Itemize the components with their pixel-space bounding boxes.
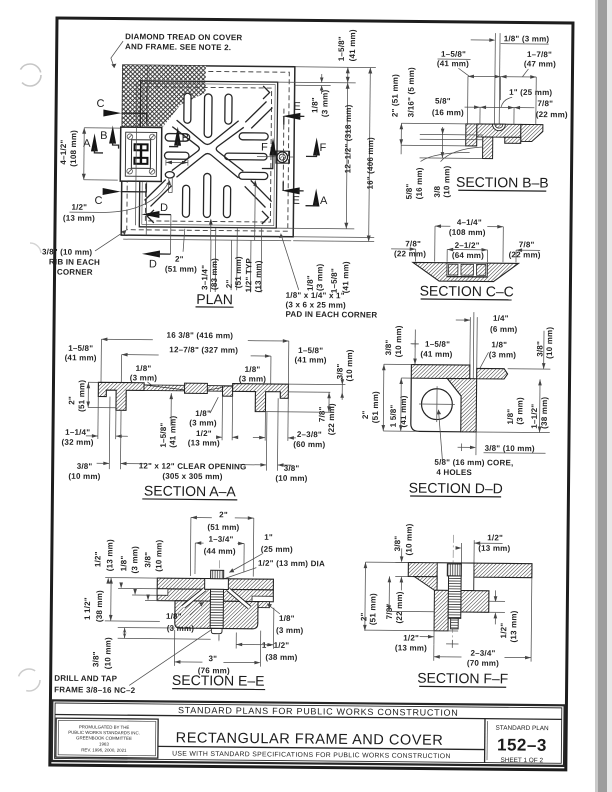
svg-text:(10 mm): (10 mm) <box>103 637 112 669</box>
svg-text:1–5/8": 1–5/8" <box>337 36 346 61</box>
svg-text:(51 mm): (51 mm) <box>77 380 86 412</box>
svg-text:REV. 1996, 2000, 2021: REV. 1996, 2000, 2021 <box>81 747 127 752</box>
taper lines on plate <box>144 385 233 390</box>
svg-text:3": 3" <box>208 654 217 663</box>
frame inner dashed rect <box>127 71 290 232</box>
svg-text:1": 1" <box>264 533 273 542</box>
svg-text:1/8" (3 mm): 1/8" (3 mm) <box>504 34 550 43</box>
svg-text:A: A <box>320 195 328 207</box>
svg-text:3–1/4": 3–1/4" <box>200 265 209 290</box>
bottom block <box>175 601 258 629</box>
svg-text:(13 mm): (13 mm) <box>395 643 427 652</box>
svg-text:(38 mm): (38 mm) <box>265 653 297 662</box>
svg-text:1/8": 1/8" <box>166 612 182 621</box>
svg-text:(22 mm): (22 mm) <box>509 250 541 259</box>
svg-text:1/8": 1/8" <box>195 409 211 418</box>
frame corner tread hatch <box>122 65 206 129</box>
svg-text:7/8": 7/8" <box>318 406 327 422</box>
svg-text:(3 mm): (3 mm) <box>167 624 195 633</box>
svg-text:5/8" (16 mm) CORE,: 5/8" (16 mm) CORE, <box>434 458 513 468</box>
svg-text:(6 mm): (6 mm) <box>490 325 518 334</box>
svg-text:F: F <box>320 142 327 154</box>
dim 1/8 gap arrows top right <box>321 74 323 82</box>
small piece <box>222 386 232 396</box>
handle stem <box>169 178 173 193</box>
latch centerline verticals <box>136 81 137 225</box>
svg-text:2": 2" <box>359 612 368 621</box>
svg-text:PLAN: PLAN <box>196 291 233 307</box>
svg-text:PAD IN EACH CORNER: PAD IN EACH CORNER <box>285 310 377 320</box>
slot h bottom-right <box>239 172 268 179</box>
body top bar left <box>411 365 470 379</box>
svg-text:1–1/2": 1–1/2" <box>530 404 539 429</box>
bottom dim extension verticals <box>214 228 217 292</box>
slot v5 <box>203 173 210 217</box>
svg-text:12–1/2" (318 mm): 12–1/2" (318 mm) <box>343 104 353 173</box>
svg-text:3/8" (10 mm): 3/8" (10 mm) <box>485 444 535 453</box>
svg-text:RIB IN EACH: RIB IN EACH <box>49 257 100 266</box>
info box <box>56 718 158 758</box>
svg-text:(51 mm): (51 mm) <box>165 265 197 274</box>
svg-text:(41 mm): (41 mm) <box>420 350 452 359</box>
svg-text:(3 mm): (3 mm) <box>189 418 217 427</box>
right block <box>461 591 489 613</box>
cover outer rect <box>139 81 277 228</box>
svg-text:7/8": 7/8" <box>405 239 421 248</box>
svg-text:(3 mm): (3 mm) <box>239 374 267 383</box>
svg-text:(108 mm): (108 mm) <box>69 130 78 167</box>
svg-text:1–5/8": 1–5/8" <box>330 268 339 293</box>
svg-text:3/8": 3/8" <box>535 341 544 357</box>
D cut line <box>170 215 172 254</box>
svg-text:5/8": 5/8" <box>405 184 414 200</box>
banner separator <box>55 715 562 720</box>
svg-text:(13 mm): (13 mm) <box>188 438 220 447</box>
svg-text:(70 mm): (70 mm) <box>467 659 499 668</box>
right standard-plan box <box>484 719 486 763</box>
svg-text:(13 mm): (13 mm) <box>254 260 263 292</box>
bolt head knurl <box>211 570 224 578</box>
svg-text:SECTION E–E: SECTION E–E <box>172 672 265 689</box>
right notch <box>252 596 273 602</box>
svg-text:3/8": 3/8" <box>384 340 393 356</box>
svg-text:1/8": 1/8" <box>279 614 295 623</box>
svg-text:(41 mm): (41 mm) <box>348 29 357 61</box>
left notch <box>157 589 168 596</box>
svg-text:3/8": 3/8" <box>393 536 402 552</box>
svg-text:1–5/8": 1–5/8" <box>68 344 93 353</box>
svg-text:12–7/8" (327 mm): 12–7/8" (327 mm) <box>169 345 238 355</box>
svg-text:1–5/8": 1–5/8" <box>425 340 450 349</box>
mid dim line <box>465 106 535 109</box>
bolt tip <box>211 628 222 633</box>
svg-text:SECTION C–C: SECTION C–C <box>420 282 514 299</box>
left ext lines <box>105 577 157 580</box>
svg-text:3/8": 3/8" <box>143 552 152 568</box>
svg-text:(10 mm): (10 mm) <box>394 325 403 357</box>
leader hooks bottom dims <box>441 147 483 162</box>
svg-text:D: D <box>149 258 157 270</box>
svg-text:1/8": 1/8" <box>136 364 152 373</box>
dim 16 vertical <box>369 68 371 242</box>
svg-text:(3 mm): (3 mm) <box>130 546 139 574</box>
svg-text:(10 mm): (10 mm) <box>275 474 307 483</box>
svg-text:(3 x 6 x 25 mm): (3 x 6 x 25 mm) <box>286 300 347 310</box>
channel blocks <box>449 264 458 275</box>
dim 1-5/8 vertical top right <box>347 67 349 82</box>
svg-text:16 3/8" (416 mm): 16 3/8" (416 mm) <box>167 331 234 341</box>
latch bolt circles <box>127 134 155 174</box>
svg-text:(41 mm): (41 mm) <box>399 395 408 427</box>
mid bar <box>477 124 521 137</box>
scan shadow right edge <box>597 0 608 792</box>
svg-text:C: C <box>94 195 102 207</box>
svg-text:(51 mm): (51 mm) <box>207 523 239 532</box>
svg-text:AND FRAME. SEE NOTE 2.: AND FRAME. SEE NOTE 2. <box>125 42 231 52</box>
svg-text:E: E <box>292 195 299 207</box>
svg-text:3/8": 3/8" <box>284 464 300 473</box>
right side extension lines <box>295 66 376 69</box>
core circle <box>421 389 452 420</box>
svg-text:(16 mm): (16 mm) <box>432 108 464 117</box>
centerline <box>218 560 221 641</box>
svg-text:3/8": 3/8" <box>91 651 100 667</box>
svg-text:7/8": 7/8" <box>537 99 553 108</box>
dim 12-1/2 vertical <box>346 83 347 229</box>
svg-text:3/16" (5 mm): 3/16" (5 mm) <box>406 67 415 117</box>
svg-text:(51 mm): (51 mm) <box>234 256 243 288</box>
svg-text:1–7/8": 1–7/8" <box>527 50 552 59</box>
svg-text:1/8": 1/8" <box>506 409 515 425</box>
svg-text:1/2": 1/2" <box>71 203 87 212</box>
svg-text:B: B <box>182 132 189 144</box>
right tab <box>258 602 270 608</box>
cover inner dashed rect <box>145 87 271 222</box>
bolt head knurl <box>447 564 461 576</box>
svg-text:2–3/4": 2–3/4" <box>470 649 495 658</box>
svg-text:(47 mm): (47 mm) <box>524 59 556 68</box>
lip under mid <box>505 137 521 143</box>
bolt head <box>205 579 229 590</box>
slot v6 <box>223 186 230 218</box>
bolt circle F <box>277 152 288 163</box>
svg-text:1 5/8": 1 5/8" <box>389 405 398 428</box>
svg-text:12" x 12" CLEAR OPENING: 12" x 12" CLEAR OPENING <box>139 461 247 471</box>
small arrows left <box>106 578 123 589</box>
svg-text:(41 mm): (41 mm) <box>295 355 327 364</box>
svg-text:3/8" (10 mm): 3/8" (10 mm) <box>42 247 92 256</box>
slot h top-left <box>165 134 190 142</box>
svg-text:5/8": 5/8" <box>435 97 451 106</box>
top plate <box>408 562 532 577</box>
slot v1 <box>184 93 191 123</box>
X band top V <box>176 120 238 145</box>
svg-text:(13 mm): (13 mm) <box>478 544 510 553</box>
svg-text:(10 mm): (10 mm) <box>68 472 100 481</box>
svg-text:2": 2" <box>67 396 76 405</box>
handle oval <box>165 172 174 178</box>
bottom dim lines <box>108 397 111 469</box>
leader arrows to bottom slots <box>210 220 212 240</box>
svg-text:3/8": 3/8" <box>335 364 344 380</box>
svg-text:B: B <box>100 130 107 142</box>
right flange <box>521 124 543 141</box>
svg-text:(13 mm): (13 mm) <box>63 214 95 223</box>
svg-text:(83 mm): (83 mm) <box>210 258 219 290</box>
left frame block <box>98 382 144 410</box>
svg-text:F: F <box>261 141 268 153</box>
bolt cavity <box>492 124 505 131</box>
svg-text:(38 mm): (38 mm) <box>95 590 104 622</box>
slot h top-right <box>239 133 268 140</box>
bolt lower <box>451 618 459 629</box>
svg-text:(108 mm): (108 mm) <box>449 228 486 237</box>
bolt head cavity white <box>437 563 474 591</box>
svg-text:(41 mm): (41 mm) <box>437 59 469 68</box>
svg-text:SECTION D–D: SECTION D–D <box>409 479 503 496</box>
punch hole top <box>19 64 41 86</box>
core leader <box>438 410 443 461</box>
svg-text:DIAMOND TREAD ON COVER: DIAMOND TREAD ON COVER <box>125 32 242 42</box>
rod through section <box>493 33 496 126</box>
svg-text:(32 mm): (32 mm) <box>62 438 94 447</box>
latch hump <box>185 383 208 393</box>
svg-text:2–3/8": 2–3/8" <box>297 430 322 439</box>
X band bottom V <box>176 153 238 178</box>
svg-text:(10 mm): (10 mm) <box>442 165 451 197</box>
svg-text:(3 mm): (3 mm) <box>320 89 329 117</box>
body vertical bar <box>447 378 477 431</box>
svg-text:2": 2" <box>175 255 184 264</box>
E cut dashed line <box>282 109 285 191</box>
svg-text:2": 2" <box>219 510 228 519</box>
left strip <box>434 590 448 631</box>
slot v2 <box>204 94 212 138</box>
svg-text:1/8": 1/8" <box>310 97 319 113</box>
centerline <box>452 535 453 645</box>
svg-text:(51 mm): (51 mm) <box>371 391 380 423</box>
svg-text:3/8: 3/8 <box>433 185 442 197</box>
svg-text:2": 2" <box>225 279 234 288</box>
use-with strip <box>158 746 485 749</box>
svg-text:1/8": 1/8" <box>306 275 315 291</box>
svg-text:(60 mm): (60 mm) <box>293 440 325 449</box>
cover edge double line <box>142 83 275 225</box>
svg-text:1 1/2": 1 1/2" <box>83 597 92 620</box>
svg-text:(3 mm): (3 mm) <box>276 626 304 635</box>
svg-text:1/2": 1/2" <box>487 533 503 542</box>
svg-text:(38 mm): (38 mm) <box>540 397 549 429</box>
svg-text:1/8": 1/8" <box>245 365 261 374</box>
left block <box>466 124 477 146</box>
svg-text:1–5/8": 1–5/8" <box>441 50 466 59</box>
svg-text:(16 mm): (16 mm) <box>415 167 424 199</box>
corner chevron SW <box>147 210 154 223</box>
centerline notch <box>472 312 475 380</box>
svg-text:(41 mm): (41 mm) <box>341 261 350 293</box>
leg <box>483 137 493 159</box>
svg-text:STANDARD PLAN: STANDARD PLAN <box>495 725 549 733</box>
dim 4-1/2 left <box>83 128 85 180</box>
svg-text:SECTION F–F: SECTION F–F <box>417 670 508 687</box>
svg-text:2" (51 mm): 2" (51 mm) <box>390 74 399 117</box>
svg-text:1/2": 1/2" <box>499 623 508 639</box>
svg-text:1/2" (13 mm) DIA: 1/2" (13 mm) DIA <box>258 559 325 569</box>
leader to hatch <box>111 41 123 68</box>
X arm SE outer dashes <box>244 180 271 207</box>
svg-text:(10 mm): (10 mm) <box>345 349 354 381</box>
X band left V <box>172 127 200 171</box>
cover plate <box>144 385 233 391</box>
middle plate <box>157 589 273 602</box>
svg-text:4 HOLES: 4 HOLES <box>436 468 472 477</box>
punch hole middle <box>30 243 41 253</box>
svg-text:(10 mm): (10 mm) <box>545 327 554 359</box>
F cut line through bolt <box>257 156 276 158</box>
dim 2 left vertical <box>87 382 89 407</box>
svg-text:E: E <box>293 101 300 113</box>
X arm SW outer dashes <box>144 179 171 206</box>
top dim line <box>468 75 536 78</box>
svg-text:4–1/4": 4–1/4" <box>457 218 482 227</box>
svg-text:(3 mm): (3 mm) <box>489 350 517 359</box>
svg-text:SECTION B–B: SECTION B–B <box>456 174 549 191</box>
svg-text:SHEET 1 OF 2: SHEET 1 OF 2 <box>501 757 544 764</box>
corner chevron NE <box>263 86 270 99</box>
latch box outer <box>120 127 162 181</box>
svg-text:(3 mm): (3 mm) <box>130 373 158 382</box>
svg-text:1/2" TYP: 1/2" TYP <box>244 258 253 293</box>
frame outer rect <box>121 65 295 237</box>
svg-text:1/2": 1/2" <box>403 633 419 642</box>
bolt tip cross <box>451 640 453 648</box>
svg-text:1963: 1963 <box>99 742 109 747</box>
svg-text:7/8": 7/8" <box>519 240 535 249</box>
bolt housing right <box>276 151 290 163</box>
pad line bottom <box>123 239 291 241</box>
title block outer box <box>52 700 565 766</box>
svg-text:(13 mm): (13 mm) <box>105 539 114 571</box>
svg-text:(25 mm): (25 mm) <box>261 545 293 554</box>
svg-text:(22 mm): (22 mm) <box>395 591 404 623</box>
bottom-left dim verticals <box>441 127 443 158</box>
svg-text:1" (25 mm): 1" (25 mm) <box>509 88 552 97</box>
svg-text:GREENBOOK COMMITTEE: GREENBOOK COMMITTEE <box>76 735 132 741</box>
svg-text:D: D <box>160 202 168 214</box>
body top bar right <box>477 368 508 379</box>
latch center mechanism <box>131 140 150 169</box>
right frame block <box>232 384 288 412</box>
svg-text:(305 x 305 mm): (305 x 305 mm) <box>162 472 222 482</box>
X band right V <box>216 127 244 171</box>
svg-text:(10 mm): (10 mm) <box>154 539 163 571</box>
left dim lines <box>401 122 465 125</box>
slot v4 <box>182 185 189 217</box>
svg-text:2": 2" <box>361 410 370 419</box>
svg-text:1–3/4": 1–3/4" <box>208 535 233 544</box>
seat seam left <box>183 589 204 607</box>
body trapezoid <box>413 262 519 281</box>
svg-text:(3 mm): (3 mm) <box>515 397 524 425</box>
svg-text:1/2": 1/2" <box>93 551 102 567</box>
punch hole bottom <box>18 669 40 691</box>
slot h right-mid <box>225 153 267 160</box>
svg-text:3/8": 3/8" <box>77 462 93 471</box>
svg-text:C: C <box>96 98 104 110</box>
svg-text:1–5/8": 1–5/8" <box>298 346 323 355</box>
svg-text:(41 mm): (41 mm) <box>65 353 97 362</box>
svg-text:16" (406 mm): 16" (406 mm) <box>366 137 376 190</box>
bolt shaft threads <box>210 589 223 628</box>
svg-text:1/4": 1/4" <box>493 314 509 323</box>
svg-text:(22 mm): (22 mm) <box>536 110 568 119</box>
svg-text:SECTION A–A: SECTION A–A <box>144 482 237 499</box>
svg-text:(13 mm): (13 mm) <box>509 610 518 642</box>
svg-text:(41 mm): (41 mm) <box>168 415 177 447</box>
svg-text:FRAME 3/8–16 NC–2: FRAME 3/8–16 NC–2 <box>54 685 136 695</box>
svg-text:152–3: 152–3 <box>497 735 547 754</box>
slot length dim arrows <box>166 161 188 163</box>
corner chevron SE <box>262 211 269 224</box>
latch box inner <box>125 132 156 176</box>
top plate <box>157 578 273 590</box>
cover tread hatch <box>140 81 205 127</box>
svg-text:2–1/2": 2–1/2" <box>455 241 480 250</box>
left funnel <box>414 577 437 591</box>
svg-text:1– 1/2": 1– 1/2" <box>262 641 290 650</box>
svg-text:(51 mm): (51 mm) <box>368 593 377 625</box>
bolt threads <box>448 576 461 619</box>
svg-text:DRILL AND TAP: DRILL AND TAP <box>54 674 117 684</box>
bolt ball <box>495 124 503 128</box>
channel <box>447 263 487 277</box>
svg-text:(3 mm): (3 mm) <box>315 263 324 291</box>
svg-text:1/2": 1/2" <box>196 429 212 438</box>
svg-text:(44 mm): (44 mm) <box>204 547 236 556</box>
slot v3 <box>225 94 232 124</box>
X arm NE outer dashes <box>245 101 272 128</box>
svg-text:1–5/8": 1–5/8" <box>159 423 168 448</box>
svg-text:4–1/2": 4–1/2" <box>59 140 68 165</box>
svg-text:1/8": 1/8" <box>491 340 507 349</box>
slot h left-mid <box>164 152 189 159</box>
svg-text:1/8": 1/8" <box>119 556 128 572</box>
svg-text:(10 mm): (10 mm) <box>404 523 413 555</box>
svg-text:CORNER: CORNER <box>57 268 93 277</box>
svg-text:RECTANGULAR FRAME AND COVER: RECTANGULAR FRAME AND COVER <box>176 730 444 749</box>
white block outline <box>411 378 462 432</box>
ext lines right <box>288 383 345 386</box>
seat seam right <box>228 589 249 607</box>
svg-text:(64 mm): (64 mm) <box>452 251 484 260</box>
